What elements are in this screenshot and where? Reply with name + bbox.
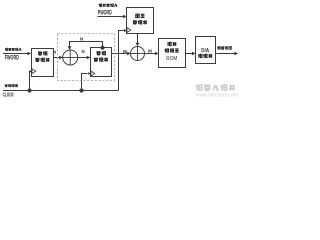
svg-text:N: N [80, 36, 83, 41]
svg-text:PWORD: PWORD [98, 11, 112, 17]
label "相位字输入 (phase word input)" [99, 4, 117, 7]
register R1: accumulate register (frequency word) [32, 49, 54, 77]
svg-text:D/A: D/A [201, 48, 209, 54]
wire: clock riser to register R2 clock pin, junction dot on rail [79, 72, 91, 93]
wire: clock riser to register R1 clock pin, junction dot on rail [27, 70, 32, 93]
label "同步" [136, 14, 145, 17]
watermark: elecfans logo glyphs (light gray) [196, 84, 236, 90]
svg-text:CLOCK: CLOCK [3, 93, 14, 99]
svg-text:M: M [148, 48, 152, 53]
clock pin triangle on register R2 [91, 71, 95, 76]
label "累加" [38, 52, 47, 56]
wire: R2 output M into adder A2 [112, 52, 131, 56]
svg-text:N: N [82, 49, 85, 54]
label "信号输出 (signal output)" [217, 46, 232, 49]
wire: adder A2 output into ROM [145, 52, 159, 56]
wire: ROM output into DAC [186, 52, 196, 56]
wire: R1 output into adder A1 [54, 56, 63, 60]
label "转换器" [198, 54, 212, 58]
svg-text:N: N [53, 50, 56, 55]
wire: sync register output down into adder A2 [136, 34, 140, 47]
wire: CLOCK rail along the bottom [3, 90, 119, 92]
adder A2: phase word summing node [131, 47, 145, 61]
wire: feedback from register R2 top to adder A1, junction dot [68, 42, 105, 50]
svg-text:FWORD: FWORD [5, 55, 19, 61]
label "波形" [167, 42, 176, 46]
label "寄存器" [94, 58, 108, 62]
wire: FWORD input into register R1 [3, 52, 31, 56]
clock pin triangle on register R1 [32, 69, 36, 74]
DAC U3: D/A converter [196, 37, 216, 64]
clock pin triangle on sync register [127, 28, 131, 33]
label "数据表" [165, 49, 179, 53]
svg-text:www.elecfans.com: www.elecfans.com [196, 93, 238, 99]
label "寄存器" [133, 20, 147, 24]
label "寄存器" [35, 58, 49, 62]
wire: PWORD input into sync register [98, 15, 127, 19]
svg-text:ROM: ROM [166, 56, 177, 62]
label "累加" [96, 51, 105, 55]
adder A1: phase accumulator summing node [63, 50, 78, 65]
wire: adder A1 output into register R2 [78, 56, 91, 60]
register R2: accumulate register (phase accumulator) [91, 48, 112, 77]
wire: clock riser up to sync register clock pin [119, 29, 127, 91]
wire: DAC signal output [216, 52, 239, 56]
label "系统时钟 (system clock)" [5, 84, 18, 87]
register U1: sync register (PWORD synchronizing register) [127, 8, 154, 34]
label "频率字输入 (frequency word input)" [5, 48, 21, 51]
dashed box: phase accumulator boundary [58, 34, 115, 81]
svg-text:M: M [123, 49, 127, 54]
ROM U2: waveform data table ROM [159, 39, 186, 68]
